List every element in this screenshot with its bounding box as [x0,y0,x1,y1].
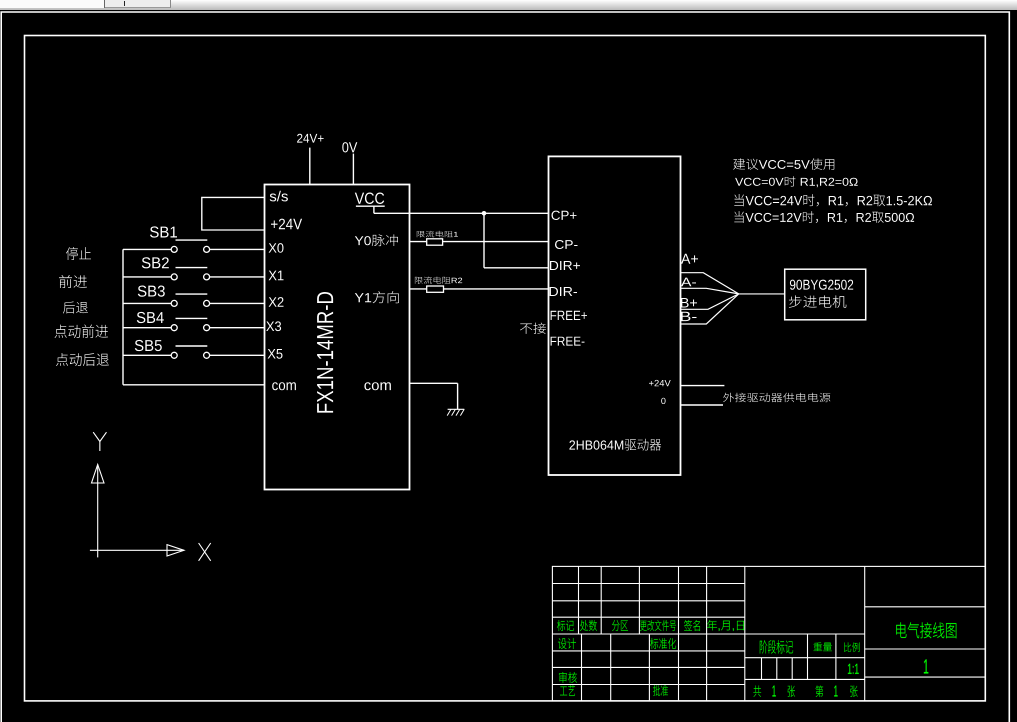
title sheet char 张b [850,686,857,698]
title cell 年月日 [707,620,744,631]
pushbutton SB4 contact left [171,325,177,331]
wire com output [410,382,458,384]
title sheet char 1b [834,685,837,696]
title scale 1:1 [848,664,859,674]
PLC model text FX1N-14MR-D [317,292,333,413]
pin DIR+ [550,261,580,270]
pin FREE- [551,337,585,346]
resistor R2 limiting [427,286,444,292]
label 24V+ [297,134,324,143]
axis Y line [97,483,99,557]
note line 3 [734,194,932,206]
pin label Y1 direction [355,291,399,303]
wire bus to switch SB4 [123,327,171,329]
wire VCC branch down [483,213,485,267]
switch label SB5 [135,340,162,351]
pin FREE+ [551,311,587,320]
wire s/s to +24V jumper [202,197,264,230]
title cell 阶段标记 [760,640,793,653]
pin CP+ [552,211,577,220]
pushbutton SB2 contact right [204,274,210,280]
title cell 工艺 [560,685,575,696]
label driver 2HB064M [569,439,661,451]
label 0V [342,142,357,152]
label resistor R2 限流电阻R2 [415,277,462,284]
pushbutton SB3 actuator bar [176,293,208,295]
axis Y arrowhead [92,465,105,484]
pushbutton SB4 contact right [204,325,210,331]
wire +24V driver supply [681,385,725,387]
label stepper motor 步进电机 [789,295,847,308]
label jog forward 点动前进 [55,325,109,338]
axis label Y glyph [93,432,106,451]
wire switch SB2 to PLC [210,276,265,278]
pushbutton SB2 actuator bar [176,267,208,269]
pushbutton SB5 contact left [171,352,177,358]
title cell 签名 [684,620,700,631]
wire B- to motor [681,294,739,324]
title cell 审核 [559,672,577,683]
pin 0 driver [661,398,665,404]
pushbutton SB1 actuator bar [176,239,208,241]
wire 24V+ supply [309,148,311,185]
pin B+ [681,298,697,308]
title sheet char 张a [788,686,795,698]
switch label SB2 [142,257,169,268]
wire VCC branch to DIR+ [484,267,549,269]
wire R1 to driver CP- [443,241,549,243]
pin label Y0 pulse [355,234,398,246]
wire A+ to motor [681,273,739,294]
title sheet char 第 [815,685,823,697]
driver 2HB064M [549,156,681,475]
title cell 标记 [557,620,574,631]
stepper motor 90BYG2502 [785,269,866,320]
pushbutton SB3 contact left [171,300,177,306]
pin X3 [266,321,281,331]
toolbar white field [0,0,105,8]
axis X arrowhead [167,545,184,556]
pushbutton SB5 contact right [204,352,210,358]
axis X line [90,549,167,551]
pin X5 [268,349,283,359]
title cell 设计 [558,638,576,649]
wire VCC down [373,206,375,213]
pin A- [681,278,696,287]
pushbutton SB5 actuator bar [176,345,208,347]
title sheet char 共 [753,686,761,697]
switch label SB1 [150,226,177,237]
pin s/s [270,191,288,202]
pushbutton SB1 contact right [204,246,210,252]
wire A- to motor [681,288,739,294]
pin X1 [269,271,284,281]
title block right section lines [865,606,986,608]
pushbutton SB4 actuator bar [176,317,208,319]
node VCC junction [482,211,487,216]
pushbutton SB3 contact right [204,300,210,306]
label backward 后退 [63,302,88,314]
wire B+ to motor [681,294,739,309]
note line 2 [735,176,858,187]
pin X0 [269,243,284,253]
label jog backward 点动后退 [56,353,109,366]
wire bus to switch SB5 [123,354,171,356]
title cell 更改文件号 [640,620,676,631]
pin com left [272,382,296,390]
switch label SB4 [137,312,164,323]
wire Y0 to resistor R1 [410,241,427,243]
pushbutton SB1 contact left [171,246,177,252]
wire bus to switch SB1 [123,248,171,250]
pin +24V driver [649,380,671,386]
wire switch SB1 to PLC [210,248,265,250]
wire switch SB3 to PLC [210,302,265,304]
title block outline [552,566,985,701]
title cell 处数 [580,620,597,631]
title sheet number 1 [924,659,928,673]
wire com down to ground [457,383,459,409]
pin DIR- [550,287,577,296]
pin +24V [271,219,302,230]
title cell 比例 [844,642,860,652]
title block middle section lines [745,657,865,659]
wire VCC to driver CP+ [374,212,549,214]
window toolbar strip [0,0,1017,10]
wire bus to switch SB3 [123,302,171,304]
label resistor R1 限流电阻1 [417,231,458,238]
label stop 停止 [66,247,91,260]
pin B- [681,312,697,321]
title cell 批准 [653,685,668,696]
title cell 重量 [814,642,832,651]
label motor model 90BYG2502 [790,280,853,290]
wire switch SB4 to PLC [210,327,265,329]
title cell 分区 [612,620,628,631]
ground [448,408,465,410]
note line 4 [734,211,914,223]
label not connected 不接 [520,323,546,334]
title name 电气接线图 [896,622,956,638]
title sheet char 1a [772,685,775,696]
PLC FX1N-14MR-D [265,185,410,490]
switch label SB3 [138,286,165,297]
wire com row [123,384,265,386]
pin X2 [269,297,284,307]
note line 1 [733,158,834,169]
wire Y1 to resistor R2 [410,288,427,290]
wire 0V supply [352,154,354,185]
pin A+ [681,254,698,264]
wire 0V driver supply [681,404,724,406]
pushbutton SB2 contact left [171,274,177,280]
wire switch SB5 to PLC [210,354,265,356]
label external power 外接驱动器供电电源 [723,393,830,403]
pin CP- [555,240,578,249]
title block revision table lines [552,583,744,585]
toolbar button [105,0,171,8]
VCC underline [356,205,385,207]
toolbar cursor tick [124,1,125,6]
wire input bus vertical [122,249,124,384]
wire R2 to driver DIR- [444,288,549,290]
title cell 标准化 [650,638,676,649]
resistor R1 limiting [427,239,443,245]
axis label X glyph [199,543,211,561]
label forward 前进 [59,275,87,288]
title block signature rows lines [552,650,744,652]
pin VCC [355,193,384,204]
wire motor bundle [739,293,785,295]
wire bus to switch SB2 [123,276,171,278]
pin com right [364,382,390,390]
